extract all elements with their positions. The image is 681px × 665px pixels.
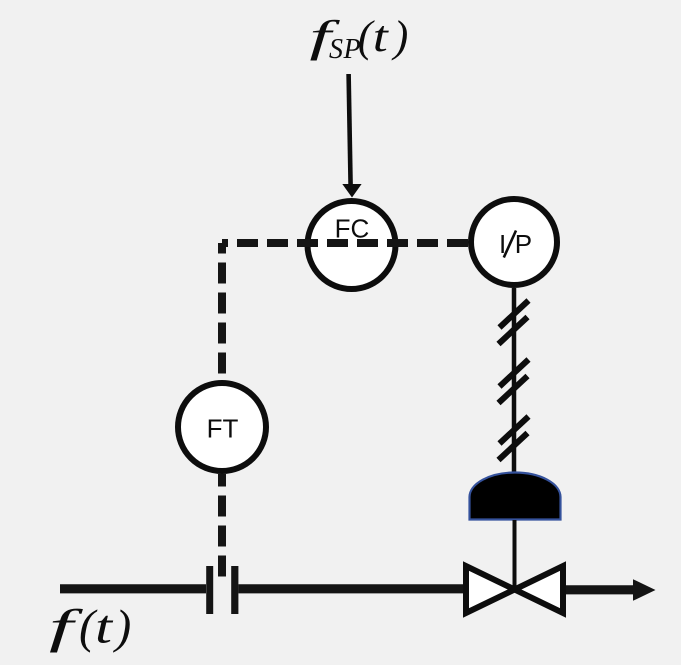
orifice plate left bar (206, 566, 213, 614)
svg-text:): ) (112, 601, 131, 654)
valve body left triangle (466, 566, 515, 613)
wire dashed signal FT to orifice (218, 474, 226, 577)
pneumatic hash marks group 2 (500, 360, 529, 387)
wire valve stem (513, 520, 517, 589)
wire dashed signal FC to I/P (222, 239, 468, 247)
valve body right triangle (515, 566, 564, 613)
svg-text:t: t (373, 12, 390, 61)
controller FC (308, 201, 396, 289)
wire setpoint arrow line (349, 74, 351, 186)
converter I/P (471, 199, 557, 285)
wire pneumatic signal I/P to valve actuator (512, 288, 517, 474)
transmitter FT (178, 383, 266, 471)
label fSP(t) setpoint (310, 12, 409, 65)
valve actuator dome (470, 473, 561, 520)
wire dashed signal corner down to FT (218, 243, 226, 382)
pipe middle segment (238, 584, 463, 593)
pipe inlet segment (60, 584, 206, 593)
pneumatic hash marks group 3 (500, 417, 529, 444)
svg-text:S: S (329, 34, 343, 65)
svg-text:t: t (95, 601, 114, 654)
label f(t) flow (49, 601, 131, 654)
svg-text:): ) (391, 12, 409, 61)
orifice plate right bar (231, 566, 238, 614)
svg-text:FC: FC (335, 214, 370, 244)
svg-text:FT: FT (207, 414, 239, 444)
pipe outlet segment (566, 585, 634, 594)
pipe outlet arrowhead (633, 579, 656, 601)
setpoint arrowhead (342, 184, 361, 198)
pneumatic hash marks group 1 (500, 301, 529, 328)
svg-text:P: P (515, 229, 532, 259)
